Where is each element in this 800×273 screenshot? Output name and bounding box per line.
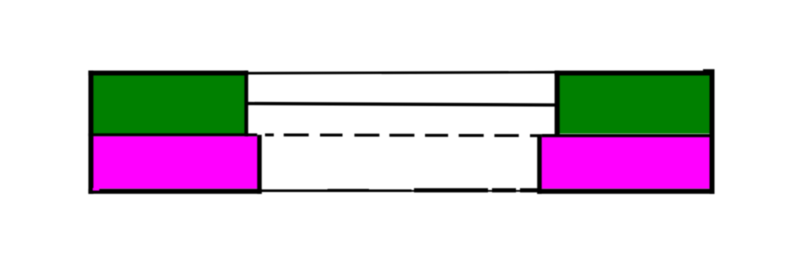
right green block left edge [555,71,560,137]
right outer border: top edge corner step [703,69,715,71]
dashed centerline dash 7 [425,134,448,137]
left hub magenta notch over border [93,188,100,191]
left outer border: bottom edge [88,189,261,194]
dashed centerline dash 8 [459,134,484,137]
dashed centerline dash 5 [354,134,379,137]
dashed centerline (axis) dash 1 [246,133,257,136]
right outer border: right edge [710,71,715,194]
middle bore line (inner surface) [247,102,557,107]
left hub magenta (bottom half section) [93,136,259,188]
middle bottom line segment D [520,188,538,192]
middle bottom line segment C [492,188,516,192]
dashed centerline dash 3 [284,134,309,137]
right hub green (top half section) [560,75,710,134]
right outer border: bottom edge [537,189,714,194]
right separator line green/magenta [542,134,715,137]
middle bottom line segment A thicker bump [328,189,370,192]
left outer border: left edge [88,71,93,194]
left outer border: top edge [88,71,248,76]
dashed centerline dash 6 [389,134,414,137]
middle top line (outer surface of tube) [247,71,557,75]
left magenta block right edge [257,135,262,194]
middle bottom line thin baseline [261,190,538,192]
middle bottom line segment A [261,189,412,192]
dashed centerline dash 2 [265,133,274,136]
middle bottom line segment B [414,188,488,192]
left separator line green/magenta [88,133,248,136]
right magenta block left edge [537,135,542,194]
left green block right edge [244,71,248,137]
dashed centerline dash 9 [494,134,518,137]
dashed centerline dash 10 [530,134,542,137]
left hub green (top half section) [93,75,245,134]
dashed centerline dash 4 [320,134,343,137]
right hub magenta (bottom half section) [542,136,710,188]
right outer border: top edge [555,71,715,76]
